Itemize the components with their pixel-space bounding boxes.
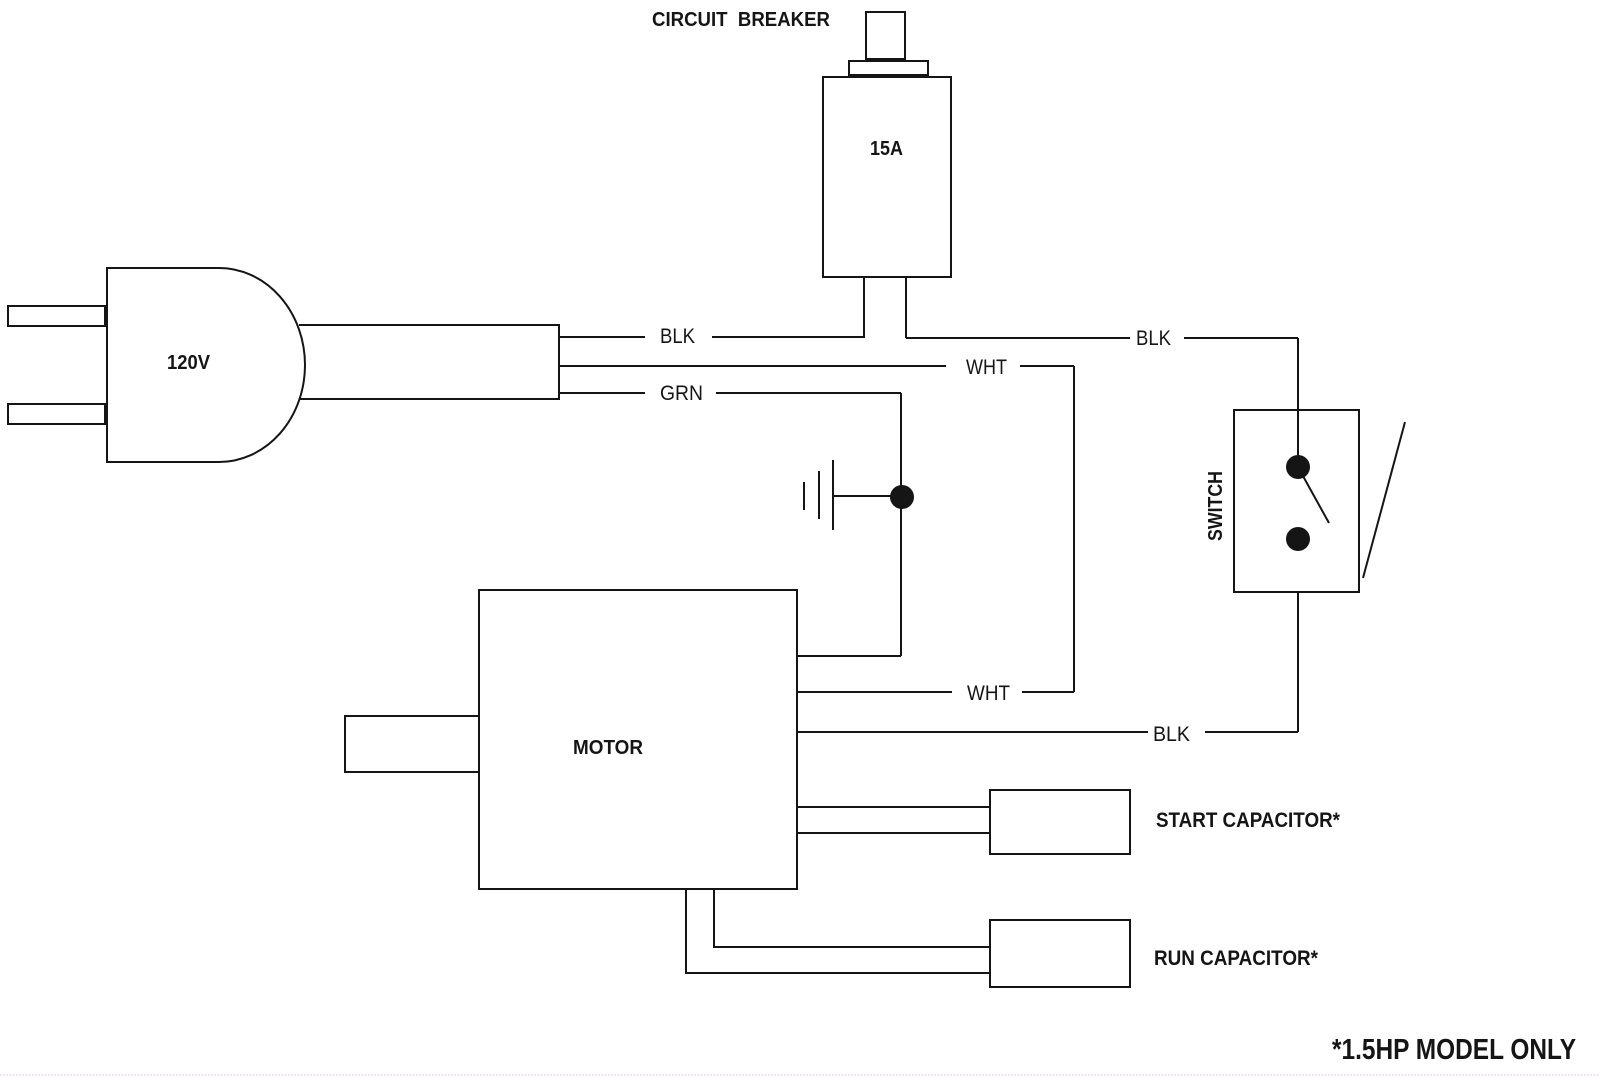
svg-text:BLK: BLK <box>1153 723 1190 746</box>
scan artifact dotted line <box>0 1074 1600 1076</box>
wire GRN plug segment <box>559 392 645 394</box>
wire start capacitor top <box>797 806 990 808</box>
svg-text:*1.5HP MODEL ONLY: *1.5HP MODEL ONLY <box>1332 1034 1576 1066</box>
plug P1 prong bottom <box>8 404 105 424</box>
wire GRN vertical <box>900 393 902 656</box>
switch S1 actuator line <box>1363 422 1405 578</box>
junction dot ground <box>890 485 914 509</box>
wire run capacitor upper <box>714 889 990 947</box>
circuit breaker CB1 button <box>866 12 905 59</box>
wire BLK to switch corner <box>1184 337 1298 339</box>
svg-text:WHT: WHT <box>967 682 1010 705</box>
circuit breaker CB1 body <box>823 77 951 277</box>
wire run capacitor lower <box>686 889 990 973</box>
switch S1 contact bottom <box>1286 527 1310 551</box>
wire BLK plug segment <box>559 336 645 338</box>
motor M1 body <box>479 590 797 889</box>
start capacitor C1 body <box>990 790 1130 854</box>
wire breaker lead right <box>905 277 907 338</box>
svg-text:START CAPACITOR*: START CAPACITOR* <box>1156 809 1341 832</box>
svg-text:SWITCH: SWITCH <box>1205 471 1227 541</box>
run capacitor C2 body <box>990 920 1130 987</box>
wire BLK breaker to switch segment <box>906 337 1130 339</box>
wire switch to BLK vertical <box>1297 539 1299 732</box>
wire GRN to motor <box>797 655 901 657</box>
wire switch drop from BLK <box>1297 338 1299 460</box>
svg-text:WHT: WHT <box>966 356 1007 379</box>
wire WHT motor segment <box>797 691 952 693</box>
svg-text:RUN CAPACITOR*: RUN CAPACITOR* <box>1154 947 1319 970</box>
wire WHT bottom label to corner <box>1022 691 1074 693</box>
wire BLK to breaker junction <box>712 336 865 338</box>
ground symbol <box>804 460 902 530</box>
wire BLK bottom label to switch corner <box>1205 731 1298 733</box>
svg-text:GRN: GRN <box>660 382 703 405</box>
plug P1 cable boot <box>299 325 559 399</box>
wire BLK motor to switch <box>797 731 1148 733</box>
switch S1 box <box>1234 410 1359 592</box>
switch S1 lever <box>1298 467 1329 523</box>
plug P1 prong top <box>8 306 105 326</box>
circuit breaker CB1 flange <box>849 61 928 75</box>
svg-text:BLK: BLK <box>1136 327 1171 350</box>
svg-text:BLK: BLK <box>660 325 695 348</box>
motor M1 shaft <box>345 716 479 772</box>
svg-text:CIRCUIT BREAKER: CIRCUIT BREAKER <box>652 9 831 31</box>
wire switch drop inside box <box>1297 410 1299 460</box>
wire WHT vertical <box>1073 366 1075 692</box>
plug P1 body <box>107 268 305 462</box>
wire start capacitor bottom <box>797 832 990 834</box>
wire WHT label to corner <box>1020 365 1074 367</box>
wire WHT plug segment <box>559 365 946 367</box>
switch S1 contact top <box>1286 455 1310 479</box>
svg-text:MOTOR: MOTOR <box>573 737 644 759</box>
svg-text:120V: 120V <box>167 352 211 374</box>
svg-text:15A: 15A <box>870 138 903 160</box>
wire GRN label to corner <box>716 392 901 394</box>
wire breaker lead left <box>863 277 865 337</box>
